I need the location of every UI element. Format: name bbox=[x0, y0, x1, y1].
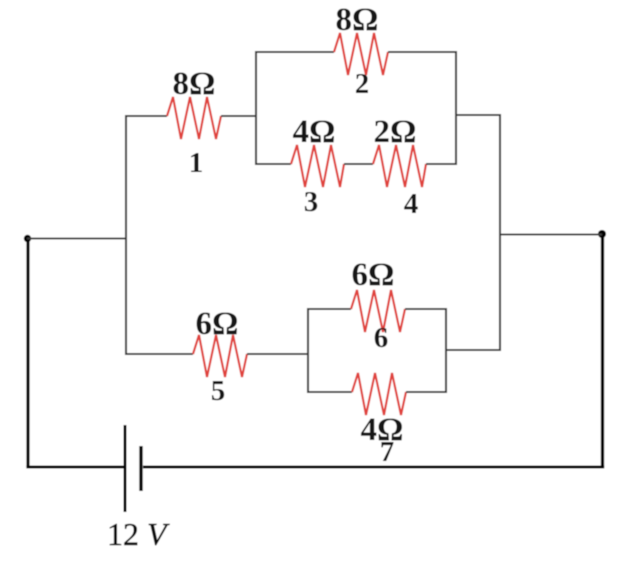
wire right outer rail bbox=[601, 234, 604, 467]
node A (left terminal dot) bbox=[24, 235, 31, 242]
wire bottom left (node A to battery) bbox=[26, 466, 125, 469]
wire lower box left edge bbox=[307, 308, 309, 393]
wire right branch rail bbox=[499, 114, 501, 351]
svg-text:7: 7 bbox=[380, 436, 395, 468]
wire bottom branch before R5 bbox=[125, 353, 193, 355]
svg-text:8Ω: 8Ω bbox=[336, 2, 379, 38]
resistor R7 4ohm bbox=[352, 373, 406, 415]
wire upper box exit to right rail bbox=[456, 114, 501, 116]
wire node A to left branch rail bbox=[27, 237, 126, 239]
resistor R2 8ohm bbox=[334, 33, 388, 75]
svg-text:5: 5 bbox=[211, 375, 226, 407]
wire upper box bottom edge left bbox=[255, 163, 291, 165]
wire lower box right edge bbox=[445, 308, 447, 393]
node B (right terminal dot) bbox=[598, 230, 606, 238]
resistor R6 6ohm bbox=[351, 290, 405, 332]
resistor R3 4ohm bbox=[291, 145, 344, 187]
wire left outer rail bbox=[26, 238, 29, 467]
svg-text:4Ω: 4Ω bbox=[293, 114, 336, 150]
wire upper box top edge left bbox=[255, 51, 334, 53]
wire R5 to lower box bbox=[247, 353, 309, 355]
resistor R4 2ohm bbox=[373, 145, 426, 187]
svg-text:12 V: 12 V bbox=[107, 516, 170, 552]
wire upper box top edge right bbox=[388, 51, 457, 53]
svg-text:4: 4 bbox=[404, 188, 419, 220]
wire bottom right (battery to node B rail) bbox=[143, 466, 604, 469]
wire R4 to upper box right edge bbox=[426, 163, 457, 165]
wire lower box top edge right bbox=[405, 308, 447, 310]
svg-text:8Ω: 8Ω bbox=[173, 66, 216, 102]
svg-text:3: 3 bbox=[304, 186, 319, 218]
resistor R1 8ohm bbox=[167, 97, 221, 139]
wire lower box exit to right rail bbox=[446, 349, 501, 351]
wire right rail to node B bbox=[500, 233, 602, 235]
wire lower box bottom edge left bbox=[307, 391, 352, 393]
svg-text:6Ω: 6Ω bbox=[352, 257, 395, 293]
svg-text:6: 6 bbox=[374, 322, 389, 354]
wire R7 to lower box right edge bbox=[406, 391, 447, 393]
wire between R3 and R4 bbox=[344, 163, 373, 165]
wire R1 to upper box bbox=[221, 115, 257, 117]
svg-text:2Ω: 2Ω bbox=[374, 114, 417, 150]
wire lower box top edge left bbox=[307, 308, 351, 310]
wire left branch rail bbox=[125, 115, 127, 355]
resistor R5 6ohm bbox=[193, 335, 247, 377]
svg-text:2: 2 bbox=[355, 68, 370, 100]
battery V1 bbox=[125, 425, 141, 512]
svg-text:6Ω: 6Ω bbox=[196, 306, 239, 342]
wire top branch before R1 bbox=[125, 115, 167, 117]
svg-text:1: 1 bbox=[189, 147, 204, 179]
wire upper box right edge bbox=[455, 51, 457, 165]
wire upper box left edge bbox=[255, 51, 257, 165]
